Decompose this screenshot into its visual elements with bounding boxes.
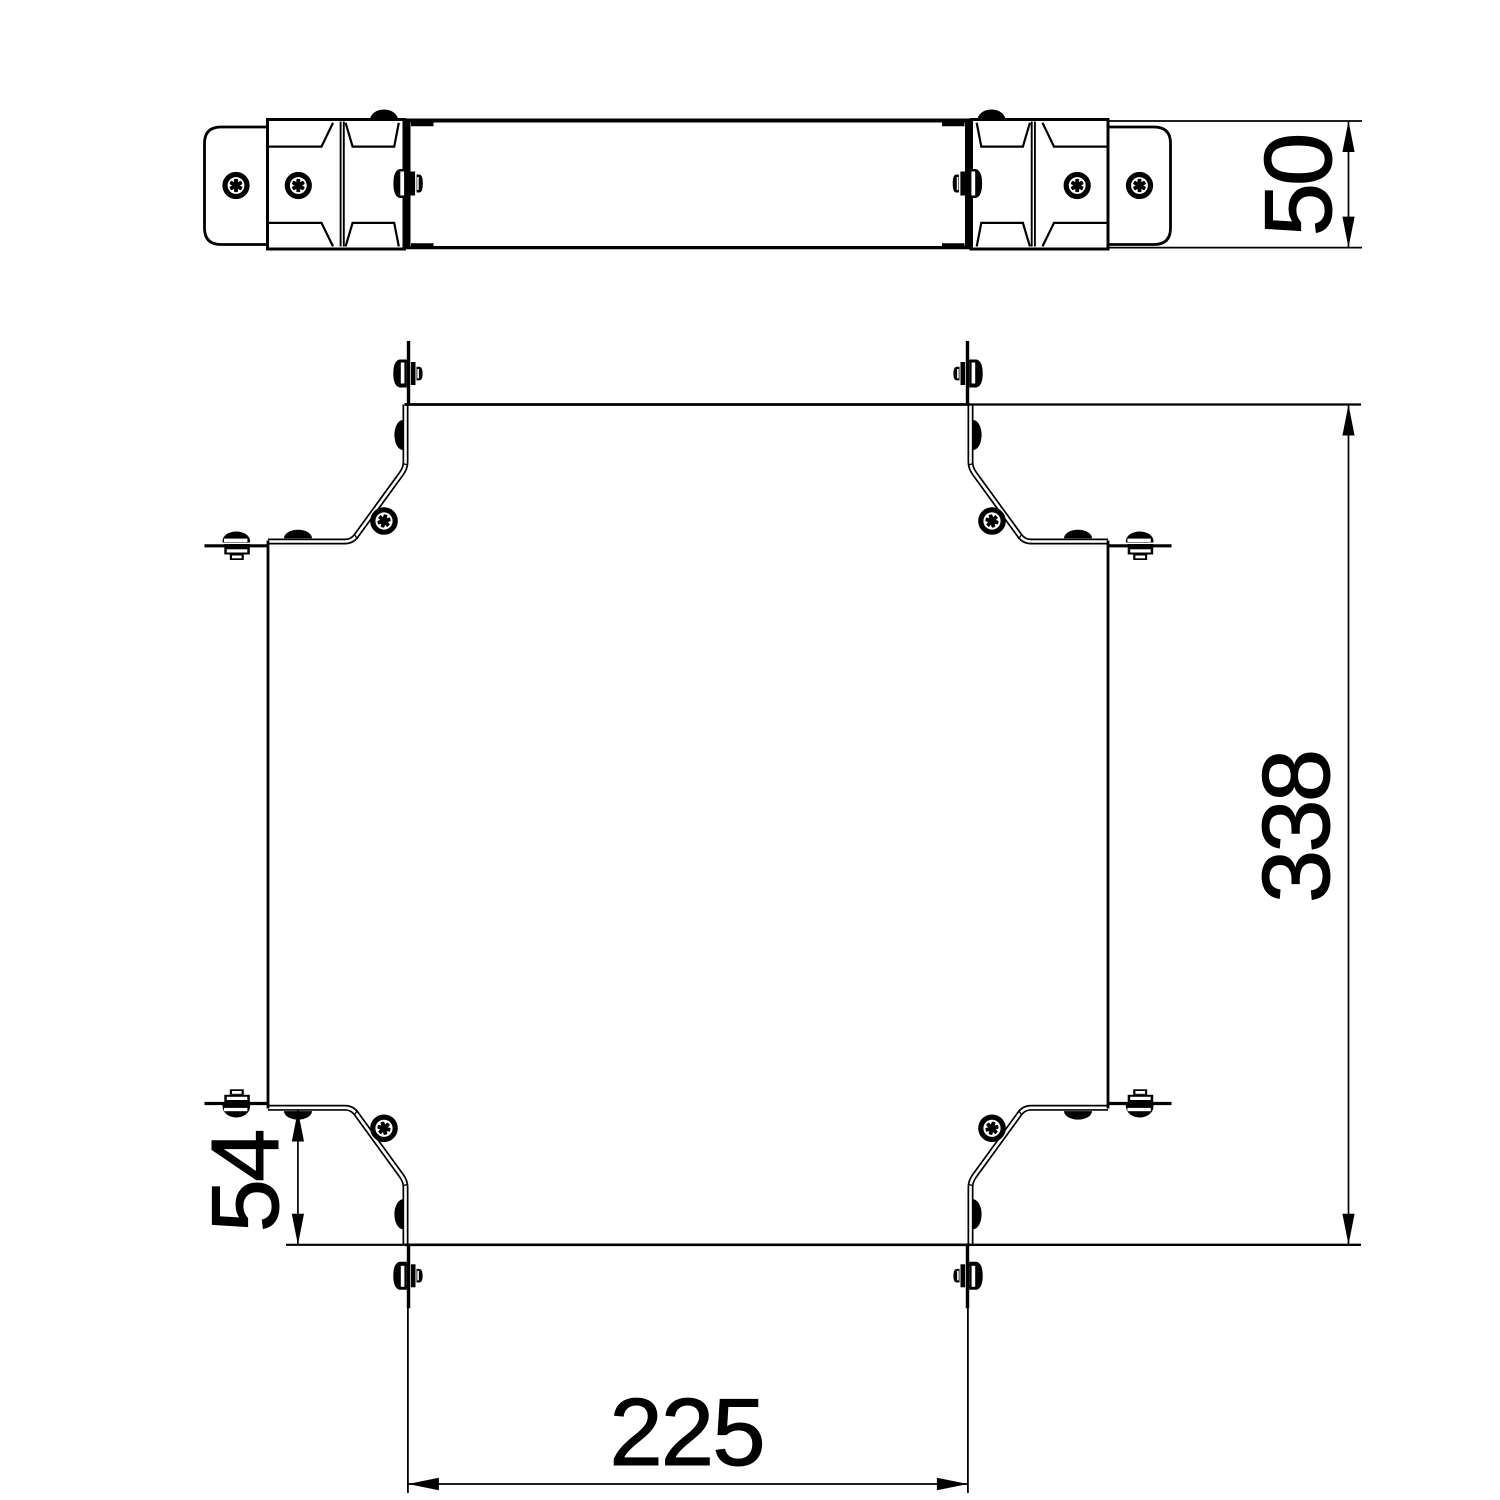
- plan view: plate top edge: [405, 403, 971, 406]
- side view: left box section1 bottom cutout: [269, 223, 333, 247]
- svg-text:50: 50: [1245, 136, 1352, 237]
- dimension 50 arrow up: [1342, 121, 1354, 152]
- side view: carriage bolt dome on channel top left: [370, 110, 398, 121]
- side view: torx screw far right: [1129, 175, 1151, 197]
- side view: torx screw left box: [287, 175, 309, 197]
- dimension 225 line: [408, 1483, 968, 1485]
- plan view: plate bottom edge: [405, 1243, 971, 1246]
- side view: left box section1 top cutout: [269, 123, 333, 147]
- side view: left box section2 bottom cutout: [346, 223, 399, 247]
- plan view: bolt dome on bottom-left bracket horizontal: [284, 1111, 312, 1120]
- dimension 338 text: [1243, 752, 1350, 903]
- dimension 54 arrow down: [292, 1214, 304, 1245]
- svg-text:54: 54: [192, 1131, 299, 1232]
- plan view: top-left corner bracket: [268, 405, 408, 542]
- plan view: bottom edge extension right to 338 dim: [970, 1244, 1361, 1246]
- dimension 54 text: [192, 1131, 299, 1232]
- plan view: 225 dim extension line left: [407, 1308, 409, 1493]
- plan view: top edge extension to 338 dim: [970, 403, 1361, 405]
- plan view: bottom-right extension line down: [966, 1245, 969, 1309]
- plan view: bolt dome on bottom-right bracket horizontal: [1064, 1111, 1092, 1120]
- plan view: bolt dome on top-right bracket vertical: [973, 420, 982, 450]
- plan view: top-left extension line up: [407, 341, 410, 405]
- plan view: screw on right edge top: [1126, 532, 1154, 561]
- plan view: screw below bottom-left corner: [393, 1262, 422, 1290]
- plan view: right edge extension line top: [1108, 544, 1172, 547]
- side view: right box divider lines: [1032, 122, 1035, 247]
- plan view: torx screw top-left: [373, 510, 395, 532]
- side view: left box divider lines: [341, 122, 344, 247]
- side view: right box section2 bottom cutout: [977, 223, 1030, 247]
- side view: right coupler box: [971, 120, 1108, 250]
- svg-text:225: 225: [609, 1379, 763, 1486]
- plan view: bolt dome on top-left bracket vertical: [394, 420, 403, 450]
- side view: left box section2 top cutout: [346, 123, 399, 147]
- side view: side screw on left wall: [393, 169, 422, 198]
- plan view: top-right extension line up: [966, 341, 969, 405]
- side view: channel inner rim left: [411, 124, 434, 245]
- dimension 338 arrow up: [1342, 405, 1354, 436]
- side view: left end wall: [403, 119, 411, 250]
- plan view: bolt dome on bottom-left bracket vertical: [394, 1199, 403, 1229]
- plan view: torx screw bottom-left: [373, 1117, 395, 1139]
- side view: carriage bolt dome on channel top right: [978, 110, 1006, 121]
- dimension 54 line: [297, 1111, 299, 1245]
- side view: left end tab: [205, 127, 293, 245]
- dimension 50 extension line top: [1108, 120, 1362, 122]
- side view: right end wall: [965, 119, 973, 250]
- plan view: 225 dim extension line right: [967, 1308, 969, 1493]
- side view: torx screw far left: [225, 175, 247, 197]
- plan view: left edge extension line top: [205, 544, 269, 547]
- plan view: bolt dome on top-right bracket horizontal: [1064, 530, 1092, 539]
- side view: torx screw right box: [1066, 175, 1088, 197]
- plan view: screw above top-right corner: [953, 360, 982, 388]
- dimension 225 text: [609, 1379, 763, 1486]
- plan view: plate left edge: [267, 541, 270, 1109]
- plan view: bolt dome on top-left bracket horizontal: [284, 530, 312, 539]
- side view: right box section1 top cutout: [1043, 123, 1107, 147]
- svg-text:338: 338: [1243, 752, 1350, 903]
- plan view: screw below bottom-right corner: [953, 1262, 982, 1290]
- dimension 50 line: [1348, 121, 1350, 248]
- plan view: top-right corner bracket: [968, 405, 1108, 542]
- side view: right end tab: [1083, 127, 1171, 245]
- dimension 225 arrow left: [408, 1478, 439, 1490]
- side view: left coupler box: [268, 120, 405, 250]
- side view: right box section2 top cutout: [977, 123, 1030, 147]
- plan view: torx screw bottom-right: [981, 1117, 1003, 1139]
- plan view: screw on left edge top: [223, 532, 251, 561]
- side view: side screw on right wall: [953, 169, 982, 198]
- side view: channel bottom edge: [403, 246, 970, 249]
- side view: right box section1 bottom cutout: [1043, 223, 1107, 247]
- side view: channel inner rim right: [942, 124, 965, 245]
- side view: channel top edge: [403, 119, 970, 123]
- plan view: bottom-right corner bracket: [968, 1108, 1108, 1245]
- plan view: right edge extension line bottom: [1108, 1102, 1172, 1105]
- dimension 54 arrow up: [292, 1111, 304, 1142]
- dimension 50 text: [1245, 136, 1352, 237]
- plan view: bottom edge extension left for 54 dim: [286, 1244, 405, 1246]
- plan view: left edge extension line bottom: [205, 1102, 269, 1105]
- plan view: screw on left edge bottom: [223, 1089, 251, 1117]
- dimension 50 extension line bottom: [1108, 247, 1362, 249]
- plan view: bolt dome on bottom-right bracket vertical: [973, 1199, 982, 1229]
- plan view: plate right edge: [1107, 541, 1110, 1109]
- plan view: bottom-left corner bracket: [268, 1108, 408, 1245]
- plan view: screw above top-left corner: [393, 360, 422, 388]
- dimension 338 arrow down: [1342, 1214, 1354, 1245]
- dimension 50 arrow down: [1342, 217, 1354, 248]
- plan view: bottom-left extension line down: [407, 1245, 410, 1309]
- dimension 225 arrow right: [937, 1478, 968, 1490]
- plan view: torx screw top-right: [981, 510, 1003, 532]
- dimension 338 line: [1348, 405, 1350, 1245]
- plan view: screw on right edge bottom: [1126, 1089, 1154, 1117]
